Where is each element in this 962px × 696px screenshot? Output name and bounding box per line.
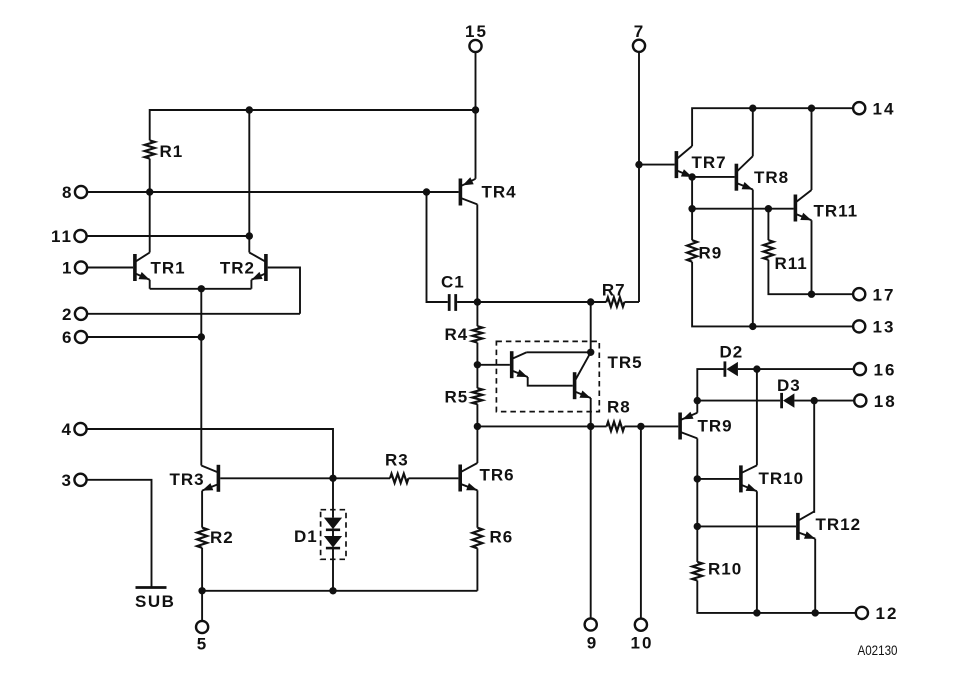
svg-text:R1: R1 (160, 142, 184, 161)
svg-text:TR7: TR7 (692, 153, 727, 172)
svg-text:18: 18 (874, 392, 897, 411)
svg-text:TR6: TR6 (480, 466, 515, 485)
svg-text:2: 2 (62, 305, 72, 324)
svg-text:R10: R10 (708, 560, 742, 579)
svg-text:TR12: TR12 (816, 515, 862, 534)
svg-text:16: 16 (874, 360, 897, 379)
svg-text:R3: R3 (385, 451, 409, 470)
svg-text:TR11: TR11 (814, 202, 859, 221)
svg-text:7: 7 (634, 22, 644, 41)
svg-text:R4: R4 (445, 325, 469, 344)
svg-text:11: 11 (51, 227, 73, 246)
svg-text:TR5: TR5 (608, 353, 643, 372)
svg-text:TR8: TR8 (754, 168, 789, 187)
svg-text:R9: R9 (699, 244, 723, 263)
svg-text:17: 17 (873, 285, 896, 304)
svg-text:C1: C1 (441, 273, 465, 292)
svg-text:12: 12 (876, 604, 899, 623)
svg-text:5: 5 (197, 635, 207, 654)
svg-text:13: 13 (873, 318, 896, 337)
svg-text:R11: R11 (775, 254, 808, 273)
svg-text:TR2: TR2 (220, 259, 255, 278)
svg-text:R2: R2 (210, 528, 234, 547)
svg-text:D2: D2 (720, 343, 744, 362)
svg-text:D1: D1 (294, 527, 318, 546)
svg-text:9: 9 (587, 634, 597, 653)
svg-text:10: 10 (631, 634, 654, 653)
svg-text:TR3: TR3 (170, 470, 205, 489)
svg-text:3: 3 (62, 471, 72, 490)
svg-text:R6: R6 (490, 528, 514, 547)
svg-text:TR9: TR9 (698, 417, 733, 436)
svg-text:R8: R8 (607, 398, 631, 417)
svg-text:4: 4 (62, 420, 72, 439)
svg-text:TR1: TR1 (151, 259, 186, 278)
svg-text:15: 15 (465, 22, 488, 41)
svg-text:TR4: TR4 (482, 183, 517, 202)
svg-text:6: 6 (62, 328, 72, 347)
svg-text:A02130: A02130 (858, 642, 898, 658)
svg-text:R7: R7 (602, 281, 626, 300)
svg-text:1: 1 (62, 259, 72, 278)
svg-text:R5: R5 (445, 388, 469, 407)
svg-text:14: 14 (873, 99, 896, 118)
svg-text:8: 8 (62, 183, 72, 202)
svg-text:TR10: TR10 (759, 469, 805, 488)
svg-text:D3: D3 (777, 376, 801, 395)
svg-text:SUB: SUB (135, 592, 175, 611)
